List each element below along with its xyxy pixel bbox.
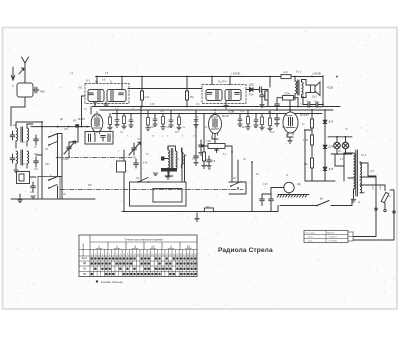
svg-text:10: 10 bbox=[187, 245, 191, 249]
svg-text:1Б: 1Б bbox=[184, 155, 187, 157]
svg-text:Выкл: Выкл bbox=[82, 258, 88, 260]
svg-text:1к: 1к bbox=[112, 136, 114, 138]
svg-text:6П14П: 6П14П bbox=[300, 113, 309, 117]
svg-text:+150В: +150В bbox=[231, 71, 240, 75]
svg-text:8-30: 8-30 bbox=[119, 158, 124, 160]
svg-text:контакт больше: контакт больше bbox=[101, 280, 123, 284]
svg-text:30,0: 30,0 bbox=[312, 96, 317, 99]
svg-text:6,3в: 6,3в bbox=[340, 159, 345, 161]
svg-text:6К4П: 6К4П bbox=[222, 114, 229, 118]
svg-text:4ГД9: 4ГД9 bbox=[327, 86, 334, 90]
svg-text:ЭД: ЭД bbox=[297, 183, 301, 186]
svg-text:Положение: Положение bbox=[82, 243, 85, 257]
svg-text:Тр-2: Тр-2 bbox=[361, 153, 367, 157]
svg-text:5м: 5м bbox=[256, 174, 259, 176]
svg-text:0,01: 0,01 bbox=[240, 111, 245, 113]
svg-text:Ш: Ш bbox=[358, 202, 360, 204]
svg-text:Ф-1: Ф-1 bbox=[86, 80, 91, 83]
svg-text:0,25: 0,25 bbox=[263, 184, 268, 186]
svg-text:КВ: КВ bbox=[83, 274, 86, 276]
svg-text:0,05: 0,05 bbox=[166, 127, 171, 129]
svg-text:Д2Б: Д2Б bbox=[249, 83, 254, 87]
svg-text:2: 2 bbox=[170, 245, 172, 249]
svg-text:Точное поло переключ-приемн: Точное поло переключ-приемн bbox=[124, 238, 163, 242]
svg-text:Сеть: Сеть bbox=[308, 241, 313, 243]
svg-text:~127/220: ~127/220 bbox=[328, 241, 338, 243]
svg-text:Пр2: Пр2 bbox=[206, 207, 211, 209]
svg-text:Тр.ПЧ: Тр.ПЧ bbox=[218, 80, 226, 84]
svg-text:ЗС: ЗС bbox=[243, 159, 246, 161]
svg-text:6И1П: 6И1П bbox=[78, 117, 85, 121]
svg-text:1г: 1г bbox=[12, 85, 14, 88]
svg-text:ДВ: ДВ bbox=[83, 263, 87, 265]
svg-text:КВ: КВ bbox=[45, 149, 48, 151]
svg-text:+20В: +20В bbox=[228, 110, 234, 114]
svg-text:Радиола Стрела: Радиола Стрела bbox=[218, 247, 273, 254]
svg-text:220в: 220в bbox=[380, 184, 382, 190]
svg-text:3: 3 bbox=[134, 245, 136, 249]
svg-text:СВ1: СВ1 bbox=[64, 129, 69, 131]
svg-text:6-495: 6-495 bbox=[62, 158, 69, 161]
svg-text:2Л: 2Л bbox=[176, 159, 179, 161]
svg-text:20,0: 20,0 bbox=[270, 132, 275, 134]
svg-text:~127/127: ~127/127 bbox=[328, 237, 338, 239]
svg-text:СВ2: СВ2 bbox=[45, 164, 50, 166]
svg-text:0,05: 0,05 bbox=[150, 104, 155, 106]
svg-text:М: М bbox=[286, 175, 288, 177]
svg-text:4Ф2: 4Ф2 bbox=[40, 89, 45, 93]
svg-text:СВ: СВ bbox=[83, 269, 87, 271]
svg-text:2А: 2А bbox=[233, 177, 236, 180]
svg-text:Сеть прсд: Сеть прсд bbox=[305, 233, 316, 235]
svg-text:+200В: +200В bbox=[312, 71, 321, 75]
svg-text:ДВ: ДВ bbox=[60, 119, 64, 121]
svg-text:2: 2 bbox=[116, 245, 118, 249]
svg-text:Пр5: Пр5 bbox=[370, 171, 375, 173]
svg-text:127в: 127в bbox=[373, 184, 375, 190]
svg-text:Гз: Гз bbox=[125, 171, 127, 173]
svg-text:0,25: 0,25 bbox=[318, 107, 323, 109]
svg-text:Тр-1: Тр-1 bbox=[296, 70, 302, 74]
svg-text:Д7Б: Д7Б bbox=[329, 168, 334, 171]
svg-text:Д7Б: Д7Б bbox=[329, 121, 334, 124]
svg-text:0,5м: 0,5м bbox=[206, 140, 211, 143]
svg-text:П3: П3 bbox=[88, 183, 92, 187]
svg-text:Д7Б: Д7Б bbox=[329, 146, 334, 149]
svg-text:Напряж.: Напряж. bbox=[327, 233, 335, 235]
svg-text:220в: 220в bbox=[284, 91, 290, 95]
svg-text:1: 1 bbox=[98, 245, 100, 249]
svg-text:69*: 69* bbox=[73, 120, 77, 123]
svg-text:7-45: 7-45 bbox=[131, 157, 136, 160]
